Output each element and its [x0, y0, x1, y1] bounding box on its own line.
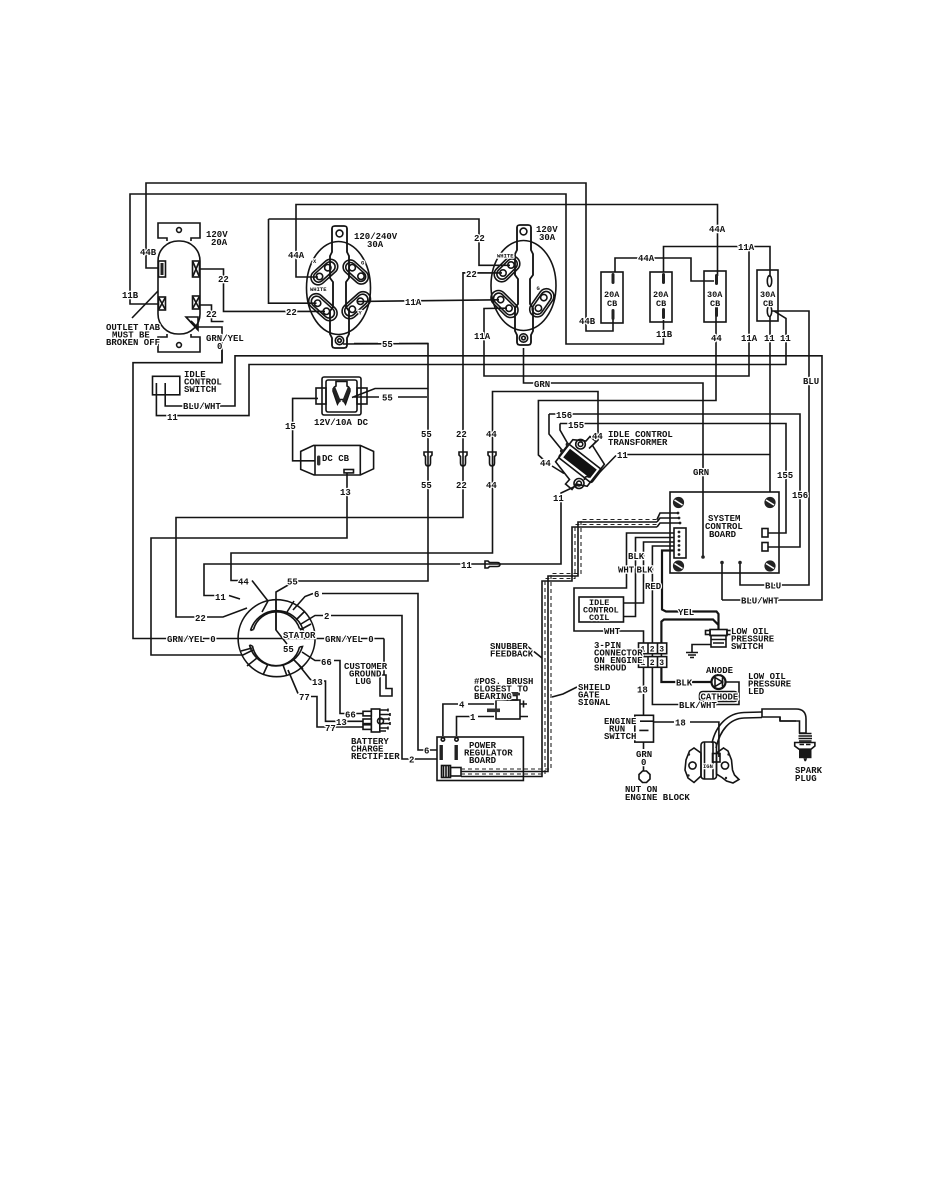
- svg-text:BLK: BLK: [637, 566, 654, 576]
- header wire WHT: board to coil wrap to pin1: [574, 533, 674, 643]
- svg-text:CB: CB: [607, 299, 617, 309]
- circuit breaker CB2 20A: [650, 272, 672, 322]
- wire 2: stator to power regulator board: [301, 616, 437, 760]
- wire 11 net: transformer bottom to stator via connector: [204, 485, 578, 599]
- wire 1: power regulator board to brush: [457, 717, 495, 737]
- svg-text:18: 18: [675, 719, 686, 729]
- spark plug boot: [762, 709, 806, 733]
- svg-text:WHITE: WHITE: [497, 253, 514, 260]
- wire GRN/YEL right: stator to ground lug: [383, 639, 385, 676]
- wire GRN/YEL outlet label gap bridge: [221, 350, 223, 363]
- svg-text:44: 44: [540, 459, 551, 469]
- wire BLU/WHT vertical from board dot: [721, 563, 723, 600]
- svg-text:156: 156: [792, 491, 808, 501]
- svg-text:FEEDBACK: FEEDBACK: [490, 650, 534, 660]
- stator: [238, 600, 315, 677]
- wire 11A: receptacle J3 to 11A bridge: [484, 247, 749, 377]
- wire 11 net: idle switch lead to CB4 bottom: [156, 311, 786, 416]
- svg-text:13: 13: [340, 488, 351, 498]
- svg-text:STATOR: STATOR: [283, 631, 316, 641]
- low oil pressure LED: [712, 675, 726, 689]
- svg-text:BEARING: BEARING: [474, 692, 512, 702]
- svg-text:55: 55: [382, 394, 393, 404]
- svg-text:44A: 44A: [709, 225, 726, 235]
- cathode callout box: [700, 692, 738, 702]
- svg-text:ENGINE BLOCK: ENGINE BLOCK: [625, 793, 690, 803]
- svg-text:0: 0: [641, 758, 646, 768]
- wire 44A bus: receptacle J2 to CB3 top: [296, 205, 718, 278]
- wire 22 net: stator to connector to receptacle J3: [176, 273, 502, 617]
- header wire YEL to low oil pressure switch: [662, 551, 719, 630]
- svg-text:11A: 11A: [738, 243, 755, 253]
- wire 4: power regulator board to brush: [443, 704, 494, 736]
- svg-text:15: 15: [285, 422, 296, 432]
- svg-text:11A: 11A: [741, 334, 758, 344]
- svg-text:LUG: LUG: [355, 677, 371, 687]
- wire 22 outlet lower slot stub: [200, 305, 224, 322]
- idle control transformer: [556, 437, 605, 490]
- wire 22 upper: outlet hot to receptacle J2 upper hole: [269, 219, 317, 303]
- svg-text:PLUG: PLUG: [795, 774, 817, 784]
- svg-text:2: 2: [650, 646, 655, 655]
- wire 22 via H4 to receptacle J3: [269, 219, 511, 265]
- svg-text:13: 13: [336, 718, 347, 728]
- svg-text:66: 66: [321, 658, 332, 668]
- svg-text:12V/10A DC: 12V/10A DC: [314, 418, 369, 428]
- receptacle J2 120/240V 30A body: [306, 226, 374, 348]
- svg-text:BLU/WHT: BLU/WHT: [183, 402, 221, 412]
- wire 18 right: switch to ignition coil: [654, 722, 719, 757]
- svg-text:6: 6: [424, 747, 429, 757]
- wire 55 label leader lower: [354, 396, 427, 398]
- system control board: [670, 492, 779, 573]
- svg-text:SWITCH: SWITCH: [604, 732, 636, 742]
- svg-text:44: 44: [711, 334, 722, 344]
- svg-text:BOARD: BOARD: [709, 530, 737, 540]
- wire 44B bus: outlet to CB1 bottom: [146, 183, 613, 331]
- svg-text:155: 155: [777, 471, 793, 481]
- svg-text:2: 2: [324, 612, 329, 622]
- svg-text:11: 11: [764, 334, 775, 344]
- svg-text:11: 11: [461, 561, 472, 571]
- wire GRN 0: switch to nut: [643, 742, 645, 771]
- svg-text:55: 55: [421, 481, 432, 491]
- wire 11B bus: outlet to CB2 bottom: [130, 194, 664, 344]
- svg-text:11A: 11A: [405, 298, 422, 308]
- wire BLK/WHT: pin2 to LED cathode: [652, 667, 739, 704]
- wire 44 net: stator to 44 connector to transformer: [231, 392, 598, 602]
- wire GRN/YEL 0 outlet ground to stator: [133, 321, 384, 639]
- wire 44 CB3 to transformer: [538, 316, 716, 474]
- nut on engine block: [639, 771, 650, 783]
- wire 77: stator to battery rectifier: [288, 670, 363, 727]
- engine run switch: [635, 715, 654, 742]
- wire 55 receptacle J2 ground to stator: [276, 344, 428, 645]
- svg-text:13: 13: [312, 678, 323, 688]
- svg-text:GRN/YEL: GRN/YEL: [206, 334, 244, 344]
- wire BLK: pin3 to LED anode: [661, 667, 711, 682]
- DC CB hexagon: [301, 445, 374, 475]
- svg-text:TRANSFORMER: TRANSFORMER: [608, 438, 668, 448]
- svg-text:GRN/YEL 0: GRN/YEL 0: [325, 635, 374, 645]
- svg-text:SHROUD: SHROUD: [594, 664, 627, 674]
- svg-text:44B: 44B: [140, 248, 157, 258]
- wire 15: 12V DC receptacle to DC CB: [293, 398, 318, 460]
- wire 11A: receptacle J2 lower slot to J3: [358, 300, 499, 302]
- idle control coil: [579, 597, 624, 622]
- svg-text:RED: RED: [645, 582, 662, 592]
- svg-text:BOARD: BOARD: [469, 756, 497, 766]
- svg-text:SWITCH: SWITCH: [731, 642, 763, 652]
- svg-text:2: 2: [409, 756, 414, 766]
- svg-text:156: 156: [556, 411, 572, 421]
- svg-text:3: 3: [659, 659, 664, 668]
- svg-text:ANODE: ANODE: [706, 666, 734, 676]
- svg-text:COIL: COIL: [589, 613, 609, 623]
- svg-text:3: 3: [659, 646, 664, 655]
- battery charge rectifier: [363, 709, 390, 733]
- svg-text:IGN: IGN: [703, 763, 713, 770]
- svg-text:18: 18: [637, 686, 648, 696]
- svg-text:LED: LED: [748, 687, 765, 697]
- svg-text:CB: CB: [763, 299, 773, 309]
- wire 44A bridge CB1-CB2-CB3: [615, 258, 714, 281]
- svg-text:BLK/WHT: BLK/WHT: [679, 701, 717, 711]
- svg-text:11A: 11A: [474, 332, 491, 342]
- svg-text:1: 1: [470, 713, 476, 723]
- svg-text:CB: CB: [656, 299, 666, 309]
- svg-text:44: 44: [238, 578, 249, 588]
- svg-text:44B: 44B: [579, 317, 596, 327]
- low oil pressure switch: [706, 630, 732, 648]
- svg-text:44: 44: [592, 432, 603, 442]
- svg-text:22: 22: [474, 234, 485, 244]
- snubber feedback bundle: [461, 513, 680, 777]
- header wire to coil lower: [624, 542, 674, 603]
- svg-text:BLK: BLK: [628, 552, 645, 562]
- svg-text:22: 22: [466, 270, 477, 280]
- svg-text:GRN/YEL 0: GRN/YEL 0: [167, 635, 216, 645]
- inline connector 55: [424, 452, 432, 466]
- circuit breaker CB4 30A: [757, 270, 778, 321]
- svg-text:11: 11: [553, 494, 564, 504]
- 12V/10A DC receptacle: [316, 377, 367, 415]
- wire 13: stator to battery rectifier: [298, 664, 363, 721]
- ignition coil: [685, 742, 739, 783]
- wire BLU: board dot to CB4: [740, 311, 809, 585]
- wire 11 CB4 bottom to system board top: [769, 316, 771, 492]
- wire 155: transformer to board: [560, 424, 786, 534]
- wire 22 outlet top slot to J2 lower hole: [200, 269, 325, 311]
- wire 11: transformer right pin to CB4/board line: [600, 455, 770, 473]
- svg-text:BLU: BLU: [765, 582, 781, 592]
- wire 156: transformer to board: [549, 414, 800, 547]
- svg-text:22: 22: [218, 275, 229, 285]
- header wire RED to 3-pin connector: [652, 546, 674, 643]
- svg-text:44A: 44A: [288, 251, 305, 261]
- svg-text:6: 6: [314, 590, 319, 600]
- svg-text:CB: CB: [710, 299, 720, 309]
- svg-text:SIGNAL: SIGNAL: [578, 698, 610, 708]
- svg-text:22: 22: [456, 430, 467, 440]
- wire 55 from 12V DC receptacle: [352, 389, 428, 398]
- svg-text:44: 44: [486, 430, 497, 440]
- svg-text:22: 22: [195, 614, 206, 624]
- outlet tab note pointer: [132, 291, 158, 318]
- svg-text:30A: 30A: [367, 240, 384, 250]
- svg-text:20A: 20A: [211, 238, 228, 248]
- shield gate signal pointer: [552, 687, 577, 697]
- svg-text:77: 77: [299, 693, 310, 703]
- wire 18: pin1 to engine run switch: [643, 667, 645, 716]
- svg-text:YEL: YEL: [678, 608, 694, 618]
- svg-text:DC CB: DC CB: [322, 454, 350, 464]
- svg-text:BLK: BLK: [676, 679, 693, 689]
- svg-text:55: 55: [382, 340, 393, 350]
- wire pin3 to low oil pressure switch: [661, 620, 718, 644]
- inline connector 11 horizontal: [485, 561, 500, 568]
- svg-text:30A: 30A: [539, 233, 556, 243]
- snubber feedback pointer: [527, 646, 542, 658]
- svg-text:11B: 11B: [656, 330, 673, 340]
- svg-text:22: 22: [286, 308, 297, 318]
- wire 66: stator to battery rectifier: [302, 652, 363, 714]
- 3-pin connector on engine shroud: [639, 643, 667, 668]
- ground symbol for LOP switch: [686, 645, 711, 658]
- svg-text:WHT: WHT: [618, 566, 635, 576]
- svg-text:GRN: GRN: [693, 468, 709, 478]
- inline connector 22: [459, 452, 467, 466]
- svg-text:2: 2: [650, 659, 655, 668]
- spark plug: [795, 734, 815, 762]
- svg-text:55: 55: [283, 645, 294, 655]
- svg-text:11B: 11B: [122, 291, 139, 301]
- brush assembly: [487, 686, 528, 719]
- svg-text:4: 4: [459, 701, 465, 711]
- svg-text:SWITCH: SWITCH: [184, 385, 216, 395]
- wire BLU/WHT net: idle switch to board via long bus: [165, 356, 822, 600]
- header wire to coil upper: [624, 538, 674, 617]
- svg-text:0: 0: [217, 342, 222, 352]
- circuit breaker CB3 30A: [704, 271, 726, 322]
- svg-text:BROKEN OFF: BROKEN OFF: [106, 338, 160, 348]
- wire 55 label line upper: [354, 343, 428, 345]
- spark plug cable: [712, 712, 762, 748]
- wire 6: stator to power regulator board: [293, 594, 437, 751]
- svg-text:RECTIFIER: RECTIFIER: [351, 752, 400, 762]
- circuit breaker CB1 20A: [601, 272, 623, 323]
- svg-text:11: 11: [167, 413, 178, 423]
- wire GRN receptacle J3 to system board dot: [524, 348, 704, 557]
- svg-text:GRN: GRN: [534, 380, 550, 390]
- svg-text:22: 22: [456, 481, 467, 491]
- svg-text:WHITE: WHITE: [310, 286, 327, 293]
- svg-text:11: 11: [780, 334, 791, 344]
- power regulator board: [437, 737, 523, 781]
- customer ground lug: [380, 675, 392, 696]
- wire 13 net: DC CB to stator: [151, 473, 347, 656]
- duplex outlet 120V 20A: [158, 223, 200, 352]
- svg-text:11: 11: [215, 593, 226, 603]
- svg-text:55: 55: [287, 578, 298, 588]
- svg-text:22: 22: [206, 310, 217, 320]
- svg-text:WHT: WHT: [604, 627, 621, 637]
- inline connector 44: [488, 452, 496, 466]
- svg-text:BLU/WHT: BLU/WHT: [741, 597, 779, 607]
- svg-text:44A: 44A: [638, 254, 655, 264]
- svg-text:55: 55: [421, 430, 432, 440]
- receptacle J3 120V 30A body: [488, 225, 557, 345]
- svg-text:155: 155: [568, 421, 584, 431]
- svg-text:77: 77: [325, 724, 336, 734]
- svg-text:BLU: BLU: [803, 377, 819, 387]
- svg-text:11: 11: [617, 451, 628, 461]
- wire 11A bridge CB2-CB4: [664, 247, 771, 278]
- idle control switch: [153, 376, 180, 395]
- svg-text:44: 44: [486, 481, 497, 491]
